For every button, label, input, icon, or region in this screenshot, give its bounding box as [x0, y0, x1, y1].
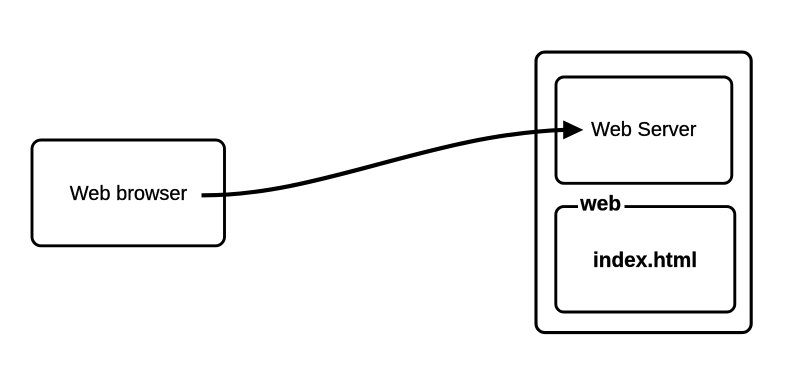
node: Web Server box — [556, 77, 732, 183]
wire: browser to server curve — [202, 130, 567, 196]
arrowhead — [563, 120, 583, 139]
svg-text:web: web — [579, 193, 621, 216]
svg-text:Web browser: Web browser — [70, 183, 188, 205]
node: web folder box — [556, 207, 735, 312]
svg-text:index.html: index.html — [593, 249, 697, 272]
svg-text:Web Server: Web Server — [591, 119, 697, 141]
node: Web browser box — [32, 140, 225, 246]
gap in border behind web label — [578, 198, 625, 215]
node: outer server container box — [536, 52, 751, 333]
